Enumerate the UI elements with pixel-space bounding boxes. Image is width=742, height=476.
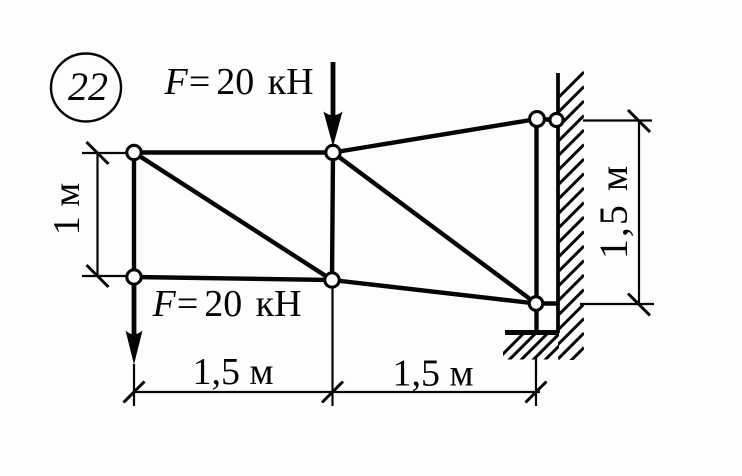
svg-text:22: 22 bbox=[68, 64, 108, 109]
bottom dimension tick left bbox=[124, 382, 145, 403]
problem number circle 22 bbox=[51, 54, 121, 122]
left dimension tick bottom bbox=[87, 265, 109, 287]
wire: link F to wall bbox=[536, 301, 558, 305]
node E bbox=[530, 112, 545, 127]
node E wall pin bbox=[550, 113, 563, 126]
svg-text:1,5 м: 1,5 м bbox=[591, 164, 636, 259]
left dimension tick top bbox=[87, 142, 109, 164]
force arrow at node C (bottom) bbox=[126, 283, 143, 365]
svg-text:F=20кН: F=20кН bbox=[164, 61, 314, 103]
svg-text:F=20кН: F=20кН bbox=[152, 283, 302, 325]
wire: diagonal member B-F bbox=[333, 153, 536, 304]
wall hatching bbox=[558, 72, 584, 374]
node F bbox=[529, 297, 543, 311]
left dimension line bbox=[96, 152, 98, 277]
wire: top chord member A-B bbox=[134, 150, 333, 154]
right dimension tick bottom bbox=[628, 294, 650, 316]
wire: right vertical member E-F extended to bracket bbox=[534, 119, 538, 331]
svg-text:1 м: 1 м bbox=[46, 183, 88, 236]
node A bbox=[127, 145, 141, 159]
node D bbox=[325, 273, 339, 287]
bottom dimension tick right bbox=[526, 382, 547, 403]
bottom dimension: extension line at D bbox=[331, 288, 333, 406]
bottom dimension line bbox=[134, 391, 540, 393]
right dimension tick top bbox=[628, 110, 650, 132]
bottom dimension tick middle bbox=[322, 382, 343, 403]
wire: bottom chord member C-D bbox=[134, 277, 332, 280]
left dimension: extension line bottom bbox=[82, 275, 126, 277]
bottom dimension: extension line at F bbox=[535, 357, 537, 406]
left dimension: extension line top bbox=[82, 152, 126, 154]
wire: top right chord member B-E bbox=[333, 119, 537, 153]
right dimension line bbox=[638, 121, 640, 305]
support bracket at F bbox=[505, 330, 559, 335]
wire: link E to wall pin bbox=[537, 119, 557, 120]
svg-text:1,5 м: 1,5 м bbox=[192, 351, 273, 393]
bottom dimension: extension line at C bbox=[133, 364, 135, 406]
wire: bottom right chord member D-F bbox=[332, 280, 536, 304]
wire: middle vertical member B-D bbox=[332, 153, 333, 281]
svg-text:1,5 м: 1,5 м bbox=[392, 353, 473, 395]
ground hatching below bracket bbox=[496, 333, 572, 361]
right dimension: extension line top bbox=[583, 119, 652, 121]
wire: left vertical member A-C bbox=[132, 153, 136, 278]
wall line bbox=[556, 73, 560, 333]
node C bbox=[127, 270, 141, 284]
force arrow at node B (top) bbox=[324, 62, 343, 147]
node B bbox=[326, 145, 340, 159]
wire: diagonal member A-D bbox=[134, 153, 332, 281]
right dimension: extension line bottom bbox=[580, 303, 654, 305]
